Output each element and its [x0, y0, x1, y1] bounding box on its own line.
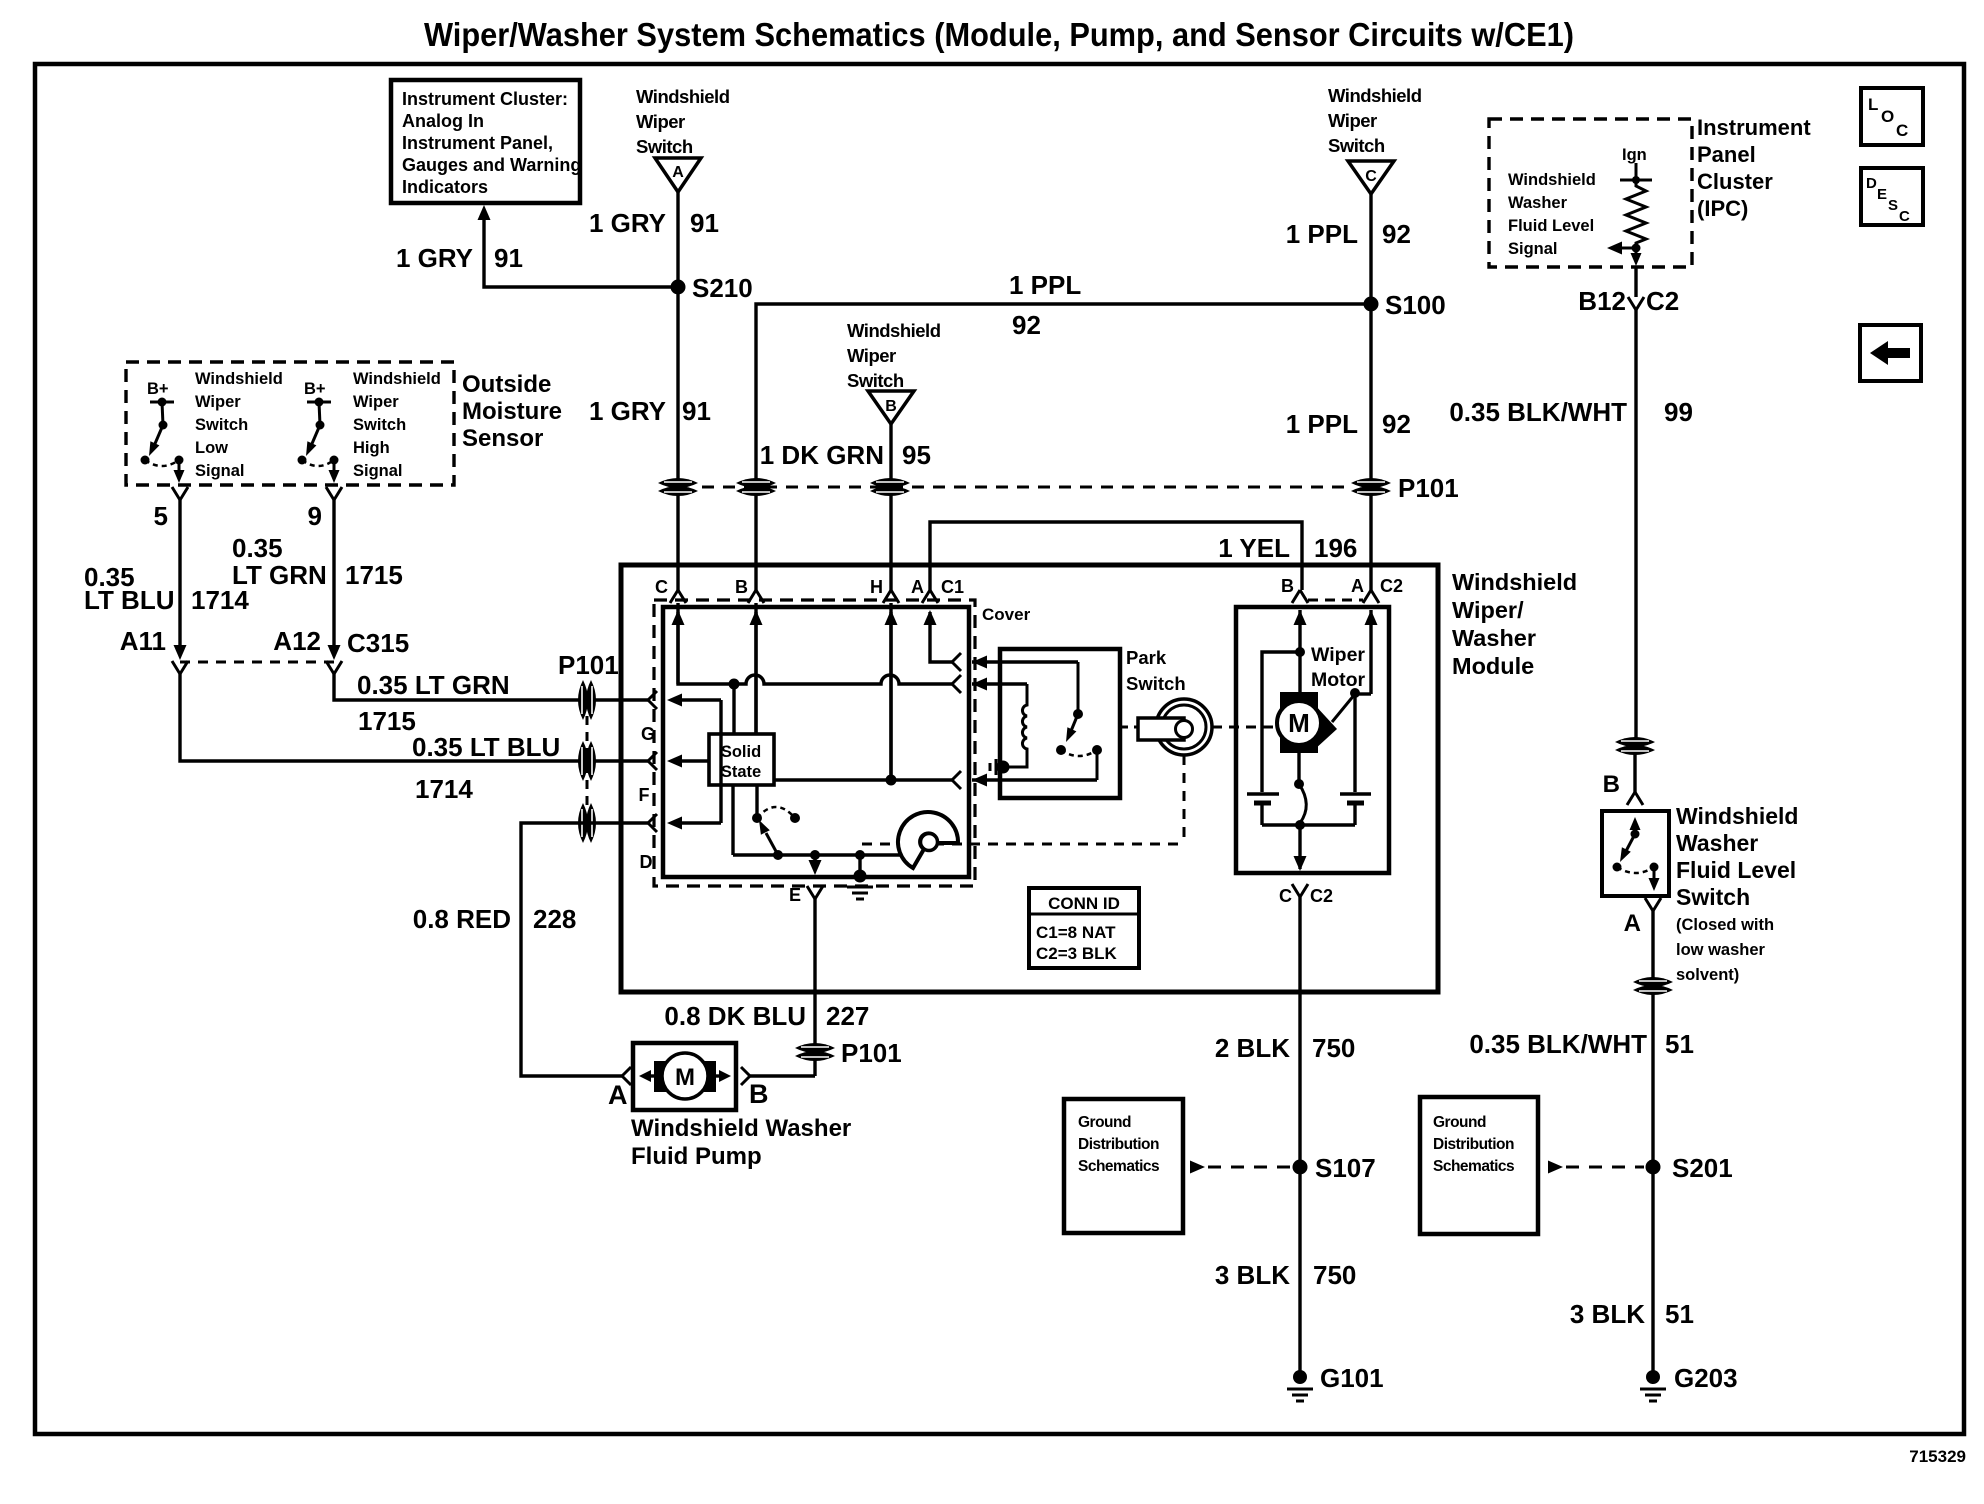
high switch throw arc [302, 460, 334, 466]
svg-text:High: High [353, 439, 390, 457]
motor brush diagonal [1332, 694, 1355, 722]
svg-text:91: 91 [682, 396, 711, 426]
svg-text:Windshield: Windshield [1676, 803, 1798, 829]
dashed link to S201 [1548, 1161, 1563, 1174]
inline connector P101 on wire 92 [1351, 478, 1391, 488]
wire 1 PPL 92 (triangle C to motor pin A) [1369, 194, 1372, 590]
svg-text:51: 51 [1665, 1029, 1694, 1059]
pin E fork and label [807, 886, 823, 899]
svg-text:Switch: Switch [847, 370, 904, 391]
svg-text:P101: P101 [558, 650, 619, 680]
fluid switch contact R [1650, 863, 1659, 872]
svg-text:Moisture: Moisture [462, 398, 562, 425]
resistor feed [1635, 163, 1638, 180]
svg-text:91: 91 [494, 243, 523, 273]
svg-text:750: 750 [1313, 1260, 1356, 1290]
motor bottom junction [1295, 820, 1305, 830]
svg-text:1 GRY: 1 GRY [396, 243, 473, 273]
card pin F arrow [667, 755, 682, 768]
park knob to motor dashed [1212, 726, 1275, 729]
node S201 [1646, 1160, 1661, 1175]
arrow into card pin H [885, 610, 898, 625]
wire 0.35 LT BLU 1714 to module pin F [180, 674, 648, 761]
wire 0.8 DK BLU 227 [813, 899, 816, 1076]
relay blade with arrow [766, 833, 778, 855]
svg-text:92: 92 [1382, 409, 1411, 439]
svg-text:92: 92 [1012, 310, 1041, 340]
connector triangle B [868, 391, 914, 424]
svg-text:A: A [1624, 910, 1641, 937]
fork pin D [648, 814, 657, 832]
motor left capacitor [1247, 792, 1279, 796]
park shaft [1138, 718, 1184, 740]
card bus Y1 with hops [678, 612, 952, 684]
wire 0.35 BLK/WHT 99 [1634, 267, 1637, 297]
svg-text:Solid: Solid [721, 743, 761, 761]
fork pin B [748, 590, 764, 603]
park shaft dashed [1120, 726, 1140, 729]
svg-text:S210: S210 [692, 273, 753, 303]
svg-text:99: 99 [1664, 397, 1693, 427]
wire 0.35 BLK/WHT 51 [1651, 911, 1654, 1377]
svg-text:Panel: Panel [1697, 142, 1756, 167]
svg-text:C: C [1365, 168, 1377, 185]
CONN ID table [1029, 888, 1139, 968]
inline connector on BLK/WHT 51 [1633, 977, 1673, 987]
fork below A12 [326, 661, 342, 674]
svg-text:0.35: 0.35 [232, 533, 283, 563]
svg-text:5: 5 [154, 501, 168, 531]
svg-text:Windshield: Windshield [1508, 171, 1596, 189]
svg-text:1 YEL: 1 YEL [1218, 533, 1290, 563]
svg-text:B+: B+ [304, 380, 326, 398]
svg-text:Instrument: Instrument [1697, 115, 1811, 140]
svg-text:Washer: Washer [1508, 194, 1568, 212]
high switch contact R [330, 456, 339, 465]
svg-text:0.35 LT BLU: 0.35 LT BLU [412, 732, 560, 762]
card pin E arrow down [813, 855, 816, 869]
connector triangle A [655, 158, 701, 192]
svg-text:D: D [1866, 175, 1877, 192]
solid state to relay coil wire [731, 785, 734, 855]
fluid switch throw arc [1617, 867, 1654, 873]
svg-text:C1: C1 [941, 577, 964, 597]
card pin fork right 1 [952, 653, 961, 671]
svg-text:Analog In: Analog In [402, 111, 484, 131]
svg-text:Cover: Cover [982, 605, 1031, 624]
connector triangle C [1348, 161, 1394, 194]
motor pin B junction [1295, 647, 1305, 657]
svg-text:Switch: Switch [195, 416, 248, 434]
fork pin G [648, 691, 657, 709]
svg-text:C2: C2 [1310, 886, 1333, 906]
windshield wiper/washer module box [621, 565, 1438, 992]
low switch pivot [159, 421, 168, 430]
motor left brush branch [1262, 652, 1300, 792]
svg-text:715329: 715329 [1909, 1447, 1966, 1466]
svg-text:Ign: Ign [1622, 146, 1647, 164]
arrow into card pin C [672, 610, 685, 625]
svg-text:Sensor: Sensor [462, 425, 543, 452]
arrow into motor pin A [1365, 610, 1378, 625]
park contact R wire [1096, 750, 1099, 780]
svg-text:A: A [911, 577, 924, 597]
motor pins dashed C2 [1308, 599, 1363, 602]
dot pin E branch [810, 850, 820, 860]
park contact R dot [1092, 745, 1102, 755]
low switch contact R [175, 456, 184, 465]
svg-text:1 PPL: 1 PPL [1009, 270, 1081, 300]
wire 1 GRY 91 branch to instrument cluster [484, 212, 678, 287]
relay pivot dot [752, 813, 762, 823]
park coil case ground dot [997, 761, 1010, 774]
outside moisture sensor dashed box [126, 362, 454, 485]
wire pin B to solid state [754, 612, 757, 734]
relay throw dashed arc [757, 807, 795, 818]
svg-text:G: G [641, 724, 655, 744]
svg-text:Fluid Level: Fluid Level [1508, 217, 1594, 235]
pump fork A [622, 1067, 631, 1085]
park switch box [1000, 649, 1120, 798]
svg-text:solvent): solvent) [1676, 966, 1739, 984]
windshield washer fluid pump box [633, 1043, 736, 1110]
svg-text:A: A [1351, 576, 1364, 596]
svg-text:Instrument Panel,: Instrument Panel, [402, 133, 553, 153]
svg-text:Switch: Switch [1126, 673, 1186, 694]
svg-text:CONN ID: CONN ID [1048, 894, 1120, 913]
connector C315 dashed line [180, 661, 334, 664]
svg-text:95: 95 [902, 440, 931, 470]
wire pin A elbow [930, 612, 952, 662]
fluid switch contact L [1613, 863, 1622, 872]
fork motor pin A [1363, 590, 1379, 603]
svg-text:1 PPL: 1 PPL [1286, 219, 1358, 249]
svg-text:Wiper: Wiper [353, 393, 399, 411]
svg-text:E: E [1877, 186, 1887, 203]
svg-text:P101: P101 [1398, 473, 1459, 503]
svg-text:A: A [608, 1080, 628, 1110]
svg-text:Indicators: Indicators [402, 177, 488, 197]
card pin D arrow [667, 817, 682, 830]
high switch output arrow [333, 460, 336, 477]
svg-text:Low: Low [195, 439, 228, 457]
svg-text:0.8 DK BLU: 0.8 DK BLU [664, 1001, 806, 1031]
LOC box [1861, 88, 1923, 145]
fluid switch blade [1625, 834, 1635, 853]
svg-text:Windshield: Windshield [353, 370, 441, 388]
back-arrow box [1860, 325, 1921, 381]
wire motor C to S107 and G101 [1298, 897, 1301, 1377]
P101 dashed column [586, 716, 589, 806]
wire into fluid level switch pin B [1633, 754, 1636, 792]
svg-text:Wiper: Wiper [847, 345, 896, 366]
svg-text:Wiper: Wiper [195, 393, 241, 411]
svg-text:H: H [870, 577, 883, 597]
card G-D link [719, 700, 722, 823]
park coil [1006, 684, 1027, 767]
dashed link to S107 [1190, 1161, 1205, 1174]
pin B12 C2 fork [1628, 297, 1644, 310]
svg-text:C: C [1896, 121, 1908, 140]
pump fork B [741, 1067, 750, 1085]
svg-text:Fluid Pump: Fluid Pump [631, 1143, 762, 1170]
park switch common dot [1073, 709, 1083, 719]
fork motor pin B [1292, 590, 1308, 603]
fork pin H [883, 590, 899, 603]
wire 0.35 LT GRN 1715 to module pin G [334, 674, 648, 700]
svg-text:S107: S107 [1315, 1153, 1376, 1183]
svg-text:Washer: Washer [1676, 830, 1758, 856]
svg-text:Windshield: Windshield [847, 320, 941, 341]
svg-text:C315: C315 [347, 628, 409, 658]
cover dashed outline [654, 600, 975, 886]
svg-text:0.35 BLK/WHT: 0.35 BLK/WHT [1449, 397, 1627, 427]
svg-text:0.35 BLK/WHT: 0.35 BLK/WHT [1469, 1029, 1647, 1059]
svg-text:C2=3 BLK: C2=3 BLK [1036, 944, 1117, 963]
motor pin C fork and labels [1292, 884, 1308, 897]
svg-text:S100: S100 [1385, 290, 1446, 320]
park cam dashed line [862, 843, 1184, 846]
svg-text:Schematics: Schematics [1078, 1158, 1159, 1175]
fluid switch contact arrow up [1634, 823, 1637, 834]
wire 0.8 RED 228 [521, 823, 648, 1076]
svg-text:Schematics: Schematics [1433, 1158, 1514, 1175]
svg-text:C: C [1279, 886, 1292, 906]
arrow down to pin B12 [1635, 248, 1638, 257]
svg-text:Ground: Ground [1433, 1114, 1486, 1131]
pin 5 fork and wire LT BLU [172, 487, 188, 500]
svg-text:A: A [672, 164, 684, 181]
svg-text:C1=8 NAT: C1=8 NAT [1036, 923, 1116, 942]
svg-text:Ground: Ground [1078, 1114, 1131, 1131]
svg-text:low washer: low washer [1676, 941, 1766, 959]
svg-text:A11: A11 [120, 626, 166, 656]
svg-text:Distribution: Distribution [1078, 1136, 1159, 1153]
inline connector P101 pin G [578, 680, 588, 720]
park switch common wire [1077, 662, 1080, 714]
svg-text:B: B [885, 398, 897, 415]
svg-text:A12: A12 [273, 626, 321, 656]
svg-text:1 PPL: 1 PPL [1286, 409, 1358, 439]
ground G203 [1646, 1370, 1660, 1384]
svg-text:Switch: Switch [353, 416, 406, 434]
relay throw dot [790, 813, 800, 823]
svg-text:B: B [1603, 771, 1620, 798]
svg-text:Windshield: Windshield [1452, 569, 1577, 595]
arrow into card pin B [750, 610, 763, 625]
svg-text:B: B [1281, 576, 1294, 596]
svg-text:C2: C2 [1646, 286, 1679, 316]
node S107 [1293, 1160, 1308, 1175]
svg-text:Fluid Level: Fluid Level [1676, 857, 1796, 883]
pump pin A arrow [639, 1070, 651, 1082]
solid state box [709, 734, 774, 785]
wire solid state to card pin 3 [774, 778, 952, 781]
dashed connector line P101 [702, 486, 1348, 489]
svg-text:228: 228 [533, 904, 576, 934]
low switch output arrow [178, 460, 181, 477]
solid state to relay switch wire [755, 785, 758, 818]
svg-text:B: B [749, 1079, 769, 1109]
inline connector P101 on wire 95 [870, 478, 910, 488]
low switch throw arc [145, 460, 179, 466]
svg-text:91: 91 [690, 208, 719, 238]
svg-text:C: C [655, 577, 668, 597]
DESC box [1861, 168, 1923, 225]
instrument panel cluster dashed box [1489, 119, 1692, 267]
svg-text:Motor: Motor [1311, 669, 1366, 691]
svg-text:92: 92 [1382, 219, 1411, 249]
card ground dot [855, 850, 865, 860]
pump wire B to P101 [750, 1074, 815, 1077]
svg-text:(IPC): (IPC) [1697, 196, 1748, 221]
svg-text:1715: 1715 [358, 706, 416, 736]
node S100 [1364, 297, 1379, 312]
ground G101 [1293, 1370, 1307, 1384]
motor right brush branch [1353, 693, 1356, 792]
svg-text:M: M [1288, 708, 1310, 738]
svg-text:Signal: Signal [1508, 240, 1558, 258]
svg-text:C: C [1899, 208, 1910, 225]
wire 1 PPL 92 branch to module pin B [756, 304, 1371, 590]
fork pin F [648, 752, 657, 770]
svg-text:2 BLK: 2 BLK [1215, 1033, 1290, 1063]
inline connector P101 on wire 92 branch [736, 478, 776, 488]
svg-text:Wiper/Washer System Schematics: Wiper/Washer System Schematics (Module, … [424, 16, 1574, 53]
svg-text:B: B [735, 577, 748, 597]
svg-text:E: E [789, 885, 801, 905]
signal branch arrow left [1615, 247, 1636, 250]
svg-text:F: F [639, 785, 650, 805]
pump motor symbol [654, 1061, 716, 1092]
arrow into motor pin B [1294, 610, 1307, 625]
svg-text:1714: 1714 [415, 774, 473, 804]
motor symbol [1280, 692, 1318, 753]
svg-text:750: 750 [1312, 1033, 1355, 1063]
svg-text:M: M [675, 1064, 695, 1091]
park cam [898, 812, 958, 868]
inline connector P101 on wire 91 [658, 478, 698, 488]
high switch pivot [316, 421, 325, 430]
svg-text:S: S [1888, 197, 1898, 214]
svg-text:Windshield: Windshield [636, 86, 730, 107]
arrow into card pin A [924, 610, 937, 625]
wire pin H down [889, 612, 892, 780]
svg-text:L: L [1868, 95, 1878, 114]
svg-text:Signal: Signal [353, 462, 403, 480]
pump pin B arrow [719, 1070, 731, 1082]
svg-text:Windshield: Windshield [1328, 85, 1422, 106]
card pin G arrow [667, 694, 682, 707]
wiper card inner box [663, 607, 969, 877]
svg-text:Signal: Signal [195, 462, 245, 480]
svg-text:Windshield: Windshield [195, 370, 283, 388]
fluid switch output arrow [1653, 867, 1656, 884]
svg-text:1 GRY: 1 GRY [589, 208, 666, 238]
fork below A11 [172, 661, 188, 674]
svg-text:0.35 LT GRN: 0.35 LT GRN [357, 670, 510, 700]
svg-text:Switch: Switch [1676, 884, 1750, 910]
svg-text:Distribution: Distribution [1433, 1136, 1514, 1153]
park knob circles [1156, 699, 1212, 755]
svg-text:3 BLK: 3 BLK [1570, 1299, 1645, 1329]
high switch contact L [298, 456, 307, 465]
svg-text:Wiper: Wiper [1311, 644, 1365, 666]
park contact L dot [1056, 745, 1066, 755]
svg-text:1 DK GRN: 1 DK GRN [760, 440, 884, 470]
motor right capacitor [1340, 792, 1371, 796]
ground distribution box left [1064, 1099, 1183, 1233]
svg-text:Cluster: Cluster [1697, 169, 1773, 194]
svg-text:LT GRN: LT GRN [232, 560, 327, 590]
svg-text:Gauges and Warning: Gauges and Warning [402, 155, 581, 175]
card pin3 arrow and wire to park contact [972, 774, 987, 787]
park throw dashed arc [1061, 750, 1097, 756]
card pin1 arrow and wire to park switch [972, 656, 987, 669]
pin 9 fork and wire LT GRN [326, 487, 342, 500]
svg-text:Wiper/: Wiper/ [1452, 597, 1524, 623]
svg-text:227: 227 [826, 1001, 869, 1031]
svg-text:Wiper: Wiper [1328, 110, 1377, 131]
motor pin C arrow down [1298, 825, 1301, 869]
svg-text:1 GRY: 1 GRY [589, 396, 666, 426]
ground distribution box right [1420, 1097, 1538, 1234]
svg-text:G101: G101 [1320, 1363, 1384, 1393]
card bottom bus Y2 [733, 853, 902, 856]
arrow into instrument cluster [478, 205, 491, 220]
motor breaker arc [1299, 784, 1306, 823]
svg-text:Switch: Switch [636, 136, 693, 157]
fork pin C [670, 590, 686, 603]
motor right junction dot [1350, 688, 1360, 698]
svg-text:S201: S201 [1672, 1153, 1733, 1183]
card pin2 arrow and wire to coil [972, 678, 987, 691]
svg-text:3 BLK: 3 BLK [1215, 1260, 1290, 1290]
svg-text:Wiper: Wiper [636, 111, 685, 132]
instrument cluster box [391, 80, 580, 203]
wire 1 DK GRN 95 (triangle B to module pin H) [889, 424, 892, 590]
svg-text:P101: P101 [841, 1038, 902, 1068]
svg-text:B+: B+ [147, 380, 169, 398]
inline connector on BLK/WHT 99 [1615, 737, 1655, 747]
svg-text:Switch: Switch [1328, 135, 1385, 156]
inline connector P101 pin F [578, 741, 588, 781]
svg-text:C2: C2 [1380, 576, 1403, 596]
svg-text:Module: Module [1452, 653, 1534, 679]
svg-text:State: State [721, 763, 761, 781]
svg-text:Outside: Outside [462, 371, 551, 398]
wire 1 GRY 91 (triangle A to S210 to module pin C) [676, 192, 679, 590]
svg-text:Washer: Washer [1452, 625, 1536, 651]
svg-text:51: 51 [1665, 1299, 1694, 1329]
junction dot Y1 to solid state [729, 679, 740, 690]
resistor (fluid level sender) [1626, 180, 1646, 248]
inline connector P101 pin D [578, 803, 588, 843]
svg-text:0.8 RED: 0.8 RED [413, 904, 511, 934]
dot blade anchor [773, 850, 783, 860]
svg-text:D: D [640, 852, 653, 872]
wire 1 YEL 196 (card pin A to motor pin B) [930, 522, 1302, 590]
svg-text:Windshield Washer: Windshield Washer [631, 1115, 851, 1142]
fork pin A [922, 590, 938, 603]
node S210 [671, 280, 686, 295]
svg-text:Park: Park [1126, 647, 1167, 668]
motor armature to breaker [1297, 746, 1300, 784]
card pin fork right 3 [952, 771, 961, 789]
park shaft tip circle [1176, 721, 1193, 738]
park knob to cam dashed [1183, 755, 1186, 844]
inline connector P101 on DK BLU [795, 1043, 835, 1053]
